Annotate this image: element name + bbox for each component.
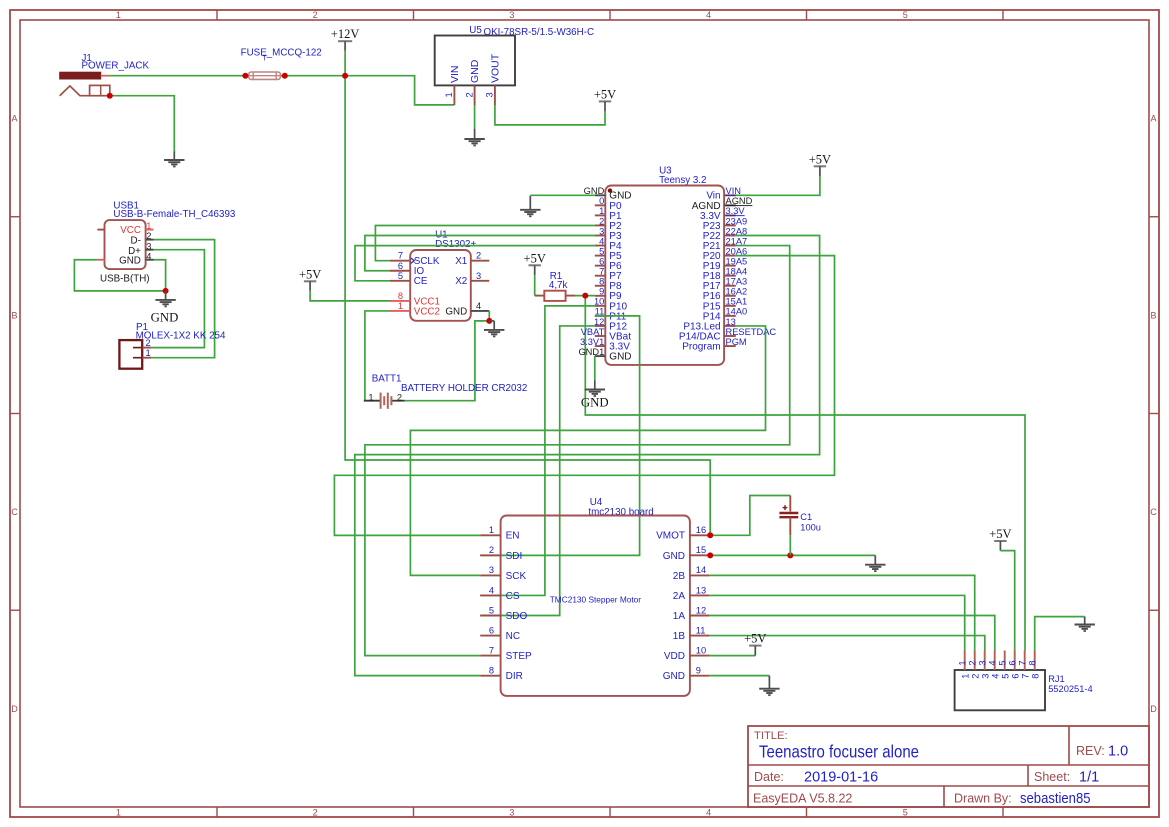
capacitor C1 100u xyxy=(779,496,821,536)
connector J1 POWER_JACK xyxy=(60,53,150,96)
svg-text:4: 4 xyxy=(489,585,494,595)
svg-text:12: 12 xyxy=(696,605,706,615)
svg-text:1B: 1B xyxy=(673,631,686,642)
svg-text:VIN: VIN xyxy=(449,65,461,83)
wire USB D+ to P1 pin2 xyxy=(151,250,204,348)
wire U1 CE to U3 P4 xyxy=(355,246,595,281)
svg-text:5: 5 xyxy=(903,807,908,817)
svg-text:3.3V: 3.3V xyxy=(726,206,746,216)
svg-text:2: 2 xyxy=(313,10,318,20)
power flag +5V (U3 Vin) xyxy=(809,152,831,176)
svg-text:REV:: REV: xyxy=(1076,744,1105,758)
wire J1 sleeve to ground xyxy=(110,96,175,152)
svg-text:2: 2 xyxy=(967,660,977,665)
svg-text:2: 2 xyxy=(146,338,151,348)
svg-text:16A2: 16A2 xyxy=(726,287,748,297)
junction C1 bottom xyxy=(787,552,793,558)
svg-text:15A1: 15A1 xyxy=(726,297,748,307)
junction R1/P9 xyxy=(582,293,588,299)
svg-text:+12V: +12V xyxy=(331,27,360,41)
svg-text:8: 8 xyxy=(1031,674,1041,679)
svg-text:10: 10 xyxy=(696,645,706,655)
svg-text:4: 4 xyxy=(987,660,997,665)
U4 left pins xyxy=(480,525,532,682)
svg-text:FUSE_MCCQ-122: FUSE_MCCQ-122 xyxy=(241,48,322,59)
svg-text:2: 2 xyxy=(397,392,402,402)
svg-text:X2: X2 xyxy=(455,276,467,287)
svg-text:GND: GND xyxy=(663,551,685,562)
svg-text:6: 6 xyxy=(599,256,604,266)
svg-text:C: C xyxy=(1150,507,1157,517)
svg-text:A: A xyxy=(1150,114,1156,124)
wire USB shield to ground node xyxy=(74,260,165,291)
junction +12V tap xyxy=(342,73,348,79)
svg-text:2: 2 xyxy=(599,216,604,226)
svg-text:2B: 2B xyxy=(673,571,686,582)
svg-text:SDI: SDI xyxy=(506,551,523,562)
wire U4 2B to RJ1 pin2 xyxy=(709,575,974,650)
wire U3 GND(top) to ground xyxy=(530,194,595,196)
junction J1 sleeve node xyxy=(107,93,113,99)
svg-text:5: 5 xyxy=(1001,674,1011,679)
svg-text:1: 1 xyxy=(116,10,121,20)
svg-text:3: 3 xyxy=(146,241,151,251)
svg-text:3: 3 xyxy=(476,271,481,281)
svg-text:16: 16 xyxy=(696,525,706,535)
svg-text:1: 1 xyxy=(368,392,373,402)
svg-text:U5: U5 xyxy=(469,25,482,36)
wire J1 to fuse xyxy=(110,75,249,77)
svg-text:3: 3 xyxy=(599,226,604,236)
svg-text:5: 5 xyxy=(398,271,403,281)
svg-text:VOUT: VOUT xyxy=(490,53,502,83)
svg-text:11: 11 xyxy=(696,625,706,635)
wire +5V to U1 VCC1 xyxy=(310,291,390,301)
ground (U4 GND9) xyxy=(759,676,779,696)
junction fuse right xyxy=(282,73,288,79)
svg-text:4: 4 xyxy=(146,251,151,261)
wire U3 P12 to U4 SDO xyxy=(480,326,595,616)
junction USB ground node xyxy=(163,288,169,294)
svg-text:GND: GND xyxy=(609,352,631,363)
svg-text:DS1302+: DS1302+ xyxy=(435,239,476,250)
svg-text:1: 1 xyxy=(116,807,121,817)
wire U5 GND pin to ground xyxy=(474,105,476,129)
svg-text:VCC2: VCC2 xyxy=(414,306,440,317)
svg-text:13: 13 xyxy=(696,585,706,595)
U4 right pins xyxy=(656,525,709,682)
svg-text:13: 13 xyxy=(726,317,736,327)
svg-text:3: 3 xyxy=(981,674,991,679)
svg-text:+5V: +5V xyxy=(299,267,321,281)
svg-text:0: 0 xyxy=(599,196,604,206)
svg-text:SDO: SDO xyxy=(506,611,528,622)
driver U4 tmc2130 board xyxy=(501,497,690,696)
svg-text:VBAT: VBAT xyxy=(581,327,605,337)
power flag +5V (U4 VDD) xyxy=(744,632,766,656)
MCU U3 Teensy 3.2 xyxy=(605,166,724,365)
svg-text:Sheet:: Sheet: xyxy=(1034,770,1070,784)
fuse FUSE_MCCQ-122 xyxy=(241,48,322,80)
wire R1 to U3 P9 xyxy=(575,295,594,297)
svg-text:1: 1 xyxy=(957,660,967,665)
ground (U5) xyxy=(464,129,484,146)
svg-text:+5V: +5V xyxy=(524,251,546,265)
wire RJ1 pin8 to ground xyxy=(1035,617,1085,651)
svg-text:18A4: 18A4 xyxy=(726,267,748,277)
svg-text:5: 5 xyxy=(599,246,604,256)
svg-text:GND: GND xyxy=(151,311,179,325)
svg-text:GND: GND xyxy=(469,59,481,83)
power flag +5V (RJ1 pin6) xyxy=(989,527,1011,551)
svg-text:4: 4 xyxy=(706,807,711,817)
svg-text:NC: NC xyxy=(506,631,520,642)
wire U3 P11 to U4 SDI xyxy=(480,316,639,556)
svg-text:GND1: GND1 xyxy=(578,347,604,357)
svg-text:6: 6 xyxy=(1007,660,1017,665)
ground (RJ1 pin8) xyxy=(1075,617,1095,631)
svg-text:1: 1 xyxy=(599,206,604,216)
wire U3 P20 to U4 EN xyxy=(334,256,834,536)
U3 corner dot xyxy=(608,188,612,192)
svg-text:D: D xyxy=(1150,704,1157,714)
svg-text:+5V: +5V xyxy=(989,527,1011,541)
junction VMOT xyxy=(707,532,713,538)
wire U4 GND15 to ground xyxy=(709,554,875,556)
wire U1 IO to U3 P3 xyxy=(365,236,595,271)
svg-text:12: 12 xyxy=(594,317,604,327)
svg-text:2: 2 xyxy=(971,674,981,679)
svg-text:USB-B-Female-TH_C46393: USB-B-Female-TH_C46393 xyxy=(113,209,236,220)
svg-text:14: 14 xyxy=(696,565,706,575)
svg-text:PGM: PGM xyxy=(726,337,747,347)
svg-text:7: 7 xyxy=(599,267,604,277)
regulator U5 OKI-78SR-5/1.5-W36H-C xyxy=(435,25,594,105)
svg-text:6: 6 xyxy=(398,261,403,271)
svg-text:5: 5 xyxy=(489,605,494,615)
svg-text:4: 4 xyxy=(476,301,481,311)
svg-text:3: 3 xyxy=(977,660,987,665)
svg-text:4: 4 xyxy=(991,674,1001,679)
connector P1 MOLEX-1X2 KK 254 xyxy=(119,322,226,369)
svg-text:Program: Program xyxy=(682,341,720,352)
wire C1 bottom to GND15 net xyxy=(789,535,791,555)
svg-text:4,7k: 4,7k xyxy=(549,280,568,291)
svg-text:2: 2 xyxy=(146,231,151,241)
svg-text:RESETDAC: RESETDAC xyxy=(726,327,777,337)
svg-text:8: 8 xyxy=(1027,660,1037,665)
svg-text:100u: 100u xyxy=(800,523,821,533)
svg-text:Teenastro focuser alone: Teenastro focuser alone xyxy=(759,742,919,762)
svg-text:3: 3 xyxy=(509,807,514,817)
svg-text:3: 3 xyxy=(509,10,514,20)
svg-text:CS: CS xyxy=(506,591,520,602)
svg-text:1.0: 1.0 xyxy=(1108,744,1128,760)
svg-text:C1: C1 xyxy=(800,512,812,522)
wire USB D- to P1 pin1 xyxy=(151,240,214,358)
svg-text:9: 9 xyxy=(696,665,701,675)
wire U3 P13 to U4 SCK xyxy=(410,326,765,575)
wire U4 VMOT to C1 xyxy=(710,496,790,536)
wire U4 VDD to +5V xyxy=(709,655,755,657)
svg-text:5: 5 xyxy=(997,660,1007,665)
ground (J1) xyxy=(164,152,184,167)
svg-text:1: 1 xyxy=(489,525,494,535)
svg-text:GND: GND xyxy=(445,306,467,317)
svg-text:17A3: 17A3 xyxy=(726,277,748,287)
connector USB1 USB-B-Female-TH_C46393 xyxy=(97,201,236,285)
svg-text:X1: X1 xyxy=(455,256,467,267)
wire +5V to R1 xyxy=(534,275,536,296)
wire U1 SCLK to U3 P2 xyxy=(375,226,594,261)
svg-text:1A: 1A xyxy=(673,611,686,622)
wire U1 VCC2 to BATT1 pin1 xyxy=(365,311,390,401)
junction fuse left xyxy=(242,73,248,79)
IC U1 DS1302+ xyxy=(390,230,489,321)
svg-text:3: 3 xyxy=(489,565,494,575)
svg-text:10: 10 xyxy=(594,297,604,307)
svg-text:2: 2 xyxy=(476,251,481,261)
svg-text:4: 4 xyxy=(706,10,711,20)
svg-text:19A5: 19A5 xyxy=(726,256,748,266)
svg-text:+5V: +5V xyxy=(809,152,831,166)
svg-text:5: 5 xyxy=(903,10,908,20)
svg-text:EN: EN xyxy=(506,531,520,542)
svg-text:1: 1 xyxy=(146,348,151,358)
svg-text:8: 8 xyxy=(398,291,403,301)
svg-text:3.3V1: 3.3V1 xyxy=(580,337,604,347)
svg-text:6: 6 xyxy=(1011,674,1021,679)
wire BATT1 pin2 to U1 ground node xyxy=(405,321,490,401)
svg-text:2: 2 xyxy=(313,807,318,817)
svg-text:1/1: 1/1 xyxy=(1079,769,1099,785)
power flag +12V xyxy=(331,27,360,51)
junction U1 ground node xyxy=(486,318,492,324)
wire U4 GND9 to ground xyxy=(709,675,769,677)
svg-text:+5V: +5V xyxy=(744,632,766,646)
svg-text:8: 8 xyxy=(599,277,604,287)
ground (U3 GND1) with GND label xyxy=(585,381,605,397)
wire fuse to +12V node and U5 VIN xyxy=(280,76,454,105)
svg-text:C: C xyxy=(11,507,18,517)
svg-text:B: B xyxy=(1150,310,1156,320)
junction GND15 stub xyxy=(707,552,713,558)
svg-text:RJ1: RJ1 xyxy=(1048,674,1065,684)
svg-text:7: 7 xyxy=(1017,660,1027,665)
wire USB GND pin4 xyxy=(154,260,166,291)
wire U3 P10 to U4 CS xyxy=(480,306,595,596)
svg-text:2: 2 xyxy=(489,545,494,555)
ground (U3 top GND) xyxy=(520,196,540,217)
svg-text:VMOT: VMOT xyxy=(656,531,685,542)
power flag +5V (U5 VOUT) xyxy=(594,87,616,111)
wire U1 GND to ground node xyxy=(488,311,490,321)
svg-text:1: 1 xyxy=(398,301,403,311)
svg-text:D: D xyxy=(11,704,18,714)
svg-text:7: 7 xyxy=(398,251,403,261)
wire U3 GND1 to ground xyxy=(594,356,596,380)
svg-text:Date:: Date: xyxy=(754,770,784,784)
svg-text:4: 4 xyxy=(599,236,604,246)
wire U3 P22 to U4 DIR xyxy=(355,236,820,676)
svg-text:23A9: 23A9 xyxy=(726,216,748,226)
svg-text:2019-01-16: 2019-01-16 xyxy=(804,769,878,785)
svg-text:Drawn By:: Drawn By: xyxy=(954,792,1012,806)
svg-text:SCK: SCK xyxy=(506,571,527,582)
svg-text:14A0: 14A0 xyxy=(726,307,748,317)
svg-text:8: 8 xyxy=(489,665,494,675)
svg-text:2: 2 xyxy=(464,92,474,97)
svg-text:POWER_JACK: POWER_JACK xyxy=(82,61,150,72)
svg-text:1: 1 xyxy=(146,221,151,231)
resistor R1 4,7k xyxy=(535,271,576,301)
svg-text:USB-B(TH): USB-B(TH) xyxy=(100,274,150,285)
svg-text:9: 9 xyxy=(599,287,604,297)
svg-text:7: 7 xyxy=(1021,674,1031,679)
svg-text:CE: CE xyxy=(414,276,428,287)
svg-text:GND: GND xyxy=(581,396,609,410)
svg-text:6: 6 xyxy=(489,625,494,635)
svg-text:BATT1: BATT1 xyxy=(372,374,402,385)
svg-text:DIR: DIR xyxy=(506,671,523,682)
svg-text:1: 1 xyxy=(961,674,971,679)
svg-text:2A: 2A xyxy=(673,591,686,602)
svg-text:BATTERY HOLDER CR2032: BATTERY HOLDER CR2032 xyxy=(401,383,527,394)
svg-text:AGND: AGND xyxy=(726,196,753,206)
wire U4 2A to RJ1 pin1 xyxy=(709,595,964,650)
wire +5V to RJ1 pin6 xyxy=(1000,551,1014,651)
svg-text:EasyEDA V5.8.22: EasyEDA V5.8.22 xyxy=(753,792,852,806)
svg-text:VCC: VCC xyxy=(120,225,141,236)
svg-text:7: 7 xyxy=(489,645,494,655)
svg-text:3: 3 xyxy=(485,92,495,97)
svg-text:STEP: STEP xyxy=(506,651,532,662)
ground (U1 pin4) xyxy=(489,320,494,322)
svg-text:5520251-4: 5520251-4 xyxy=(1048,684,1092,694)
wire U4 1B to RJ1 pin3 xyxy=(709,636,984,651)
svg-text:GND: GND xyxy=(663,671,685,682)
ground (U4 GND15) xyxy=(865,555,885,571)
power flag +5V (R1) xyxy=(524,251,546,275)
svg-text:+5V: +5V xyxy=(594,87,616,101)
svg-text:TMC2130 Stepper Motor: TMC2130 Stepper Motor xyxy=(550,595,642,605)
svg-text:15: 15 xyxy=(696,545,706,555)
battery BATT1 BATTERY HOLDER CR2032 xyxy=(364,374,528,409)
svg-text:1: 1 xyxy=(444,92,454,97)
wire R1 node to RJ1 pin7 xyxy=(585,296,1025,651)
svg-text:sebastien85: sebastien85 xyxy=(1020,791,1091,807)
wire U5 VOUT to +5V xyxy=(495,105,605,125)
wire +12V rail down to U4 VMOT xyxy=(345,51,710,536)
svg-text:B: B xyxy=(11,310,17,320)
svg-text:TITLE:: TITLE: xyxy=(754,730,788,742)
connector RJ1 5520251-4 xyxy=(955,651,1093,711)
title block xyxy=(748,726,1149,807)
ground (USB1) with GND label xyxy=(155,291,175,307)
U3 left pins xyxy=(578,186,631,362)
svg-text:VDD: VDD xyxy=(664,651,685,662)
wire U3 P21 to U4 STEP xyxy=(365,246,790,656)
wire +5V to U3 Vin xyxy=(736,176,820,195)
power flag +5V (U1 VCC1) xyxy=(299,267,321,291)
svg-text:A: A xyxy=(11,114,17,124)
svg-text:T: T xyxy=(263,56,268,63)
svg-text:GND: GND xyxy=(119,256,141,267)
wire U4 1A to RJ1 pin4 xyxy=(709,616,994,651)
U3 right pins xyxy=(679,186,776,352)
